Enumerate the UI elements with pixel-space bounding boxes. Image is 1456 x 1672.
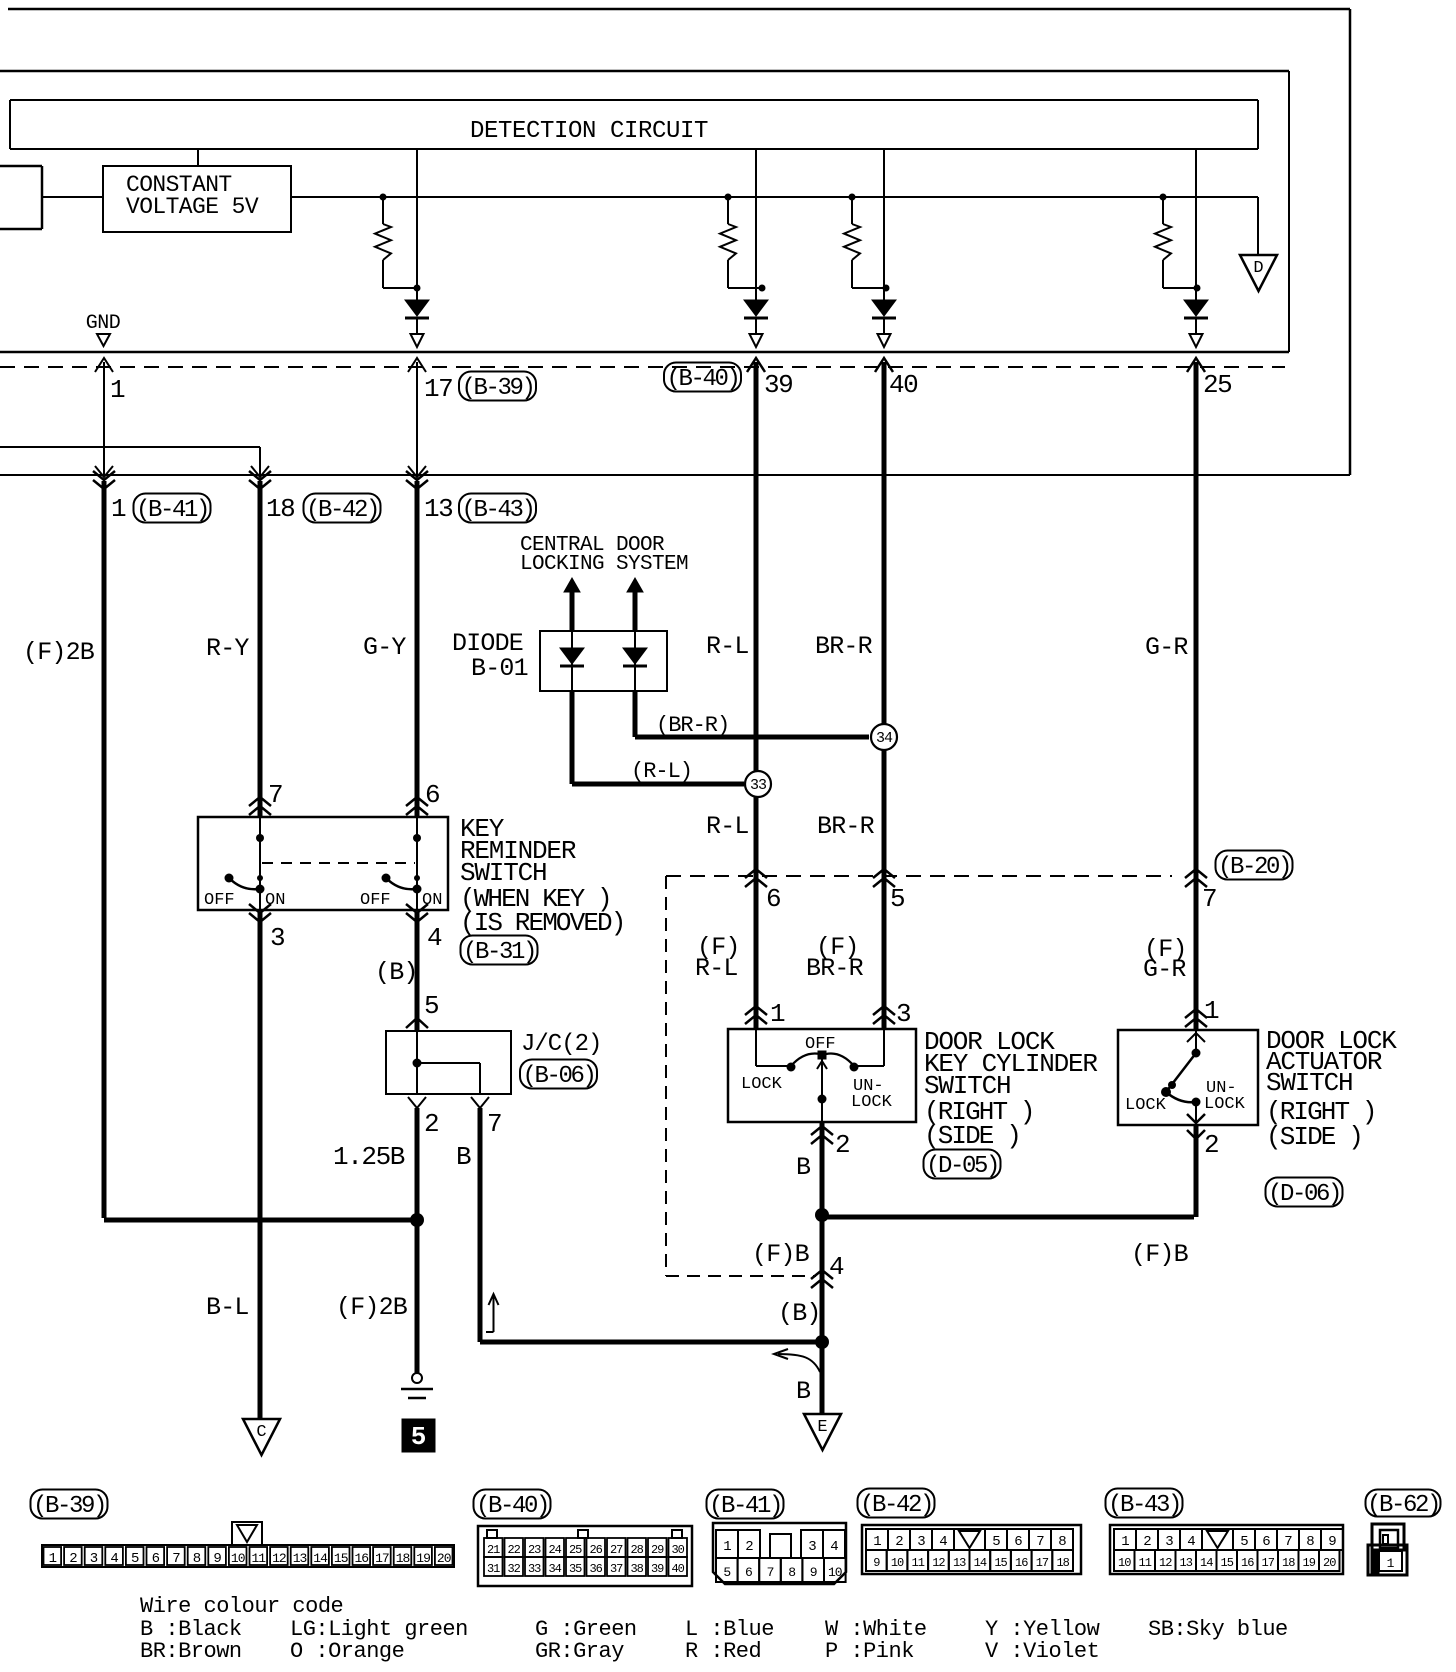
svg-text:33: 33 xyxy=(750,777,767,794)
svg-text:8: 8 xyxy=(788,1565,795,1580)
svg-text:10: 10 xyxy=(828,1565,842,1580)
svg-text:22: 22 xyxy=(507,1543,520,1557)
svg-text:(B-62): (B-62) xyxy=(1367,1492,1439,1519)
svg-text:17: 17 xyxy=(1262,1556,1275,1570)
svg-text:18: 18 xyxy=(396,1551,410,1566)
svg-text:1: 1 xyxy=(1204,996,1219,1026)
svg-text:2: 2 xyxy=(69,1551,77,1567)
svg-text:32: 32 xyxy=(507,1562,520,1576)
svg-text:2: 2 xyxy=(424,1109,438,1139)
svg-text:(F)B: (F)B xyxy=(752,1240,810,1269)
svg-text:E: E xyxy=(817,1418,827,1437)
svg-text:40: 40 xyxy=(889,370,917,400)
svg-text:18: 18 xyxy=(1056,1556,1069,1570)
svg-text:3: 3 xyxy=(896,999,910,1029)
svg-text:(B): (B) xyxy=(778,1299,821,1328)
svg-text:LOCK: LOCK xyxy=(741,1075,783,1094)
svg-text:9: 9 xyxy=(810,1565,817,1580)
svg-text:4: 4 xyxy=(427,923,442,953)
svg-text:1: 1 xyxy=(723,1539,731,1555)
svg-text:1: 1 xyxy=(111,494,126,524)
svg-text:34: 34 xyxy=(548,1562,561,1576)
svg-text:6: 6 xyxy=(745,1565,752,1580)
svg-text:12: 12 xyxy=(1159,1556,1172,1570)
svg-text:25: 25 xyxy=(1203,370,1231,400)
svg-text:J/C(2): J/C(2) xyxy=(521,1031,601,1058)
svg-text:5: 5 xyxy=(411,1422,427,1452)
svg-text:24: 24 xyxy=(548,1543,561,1557)
svg-text:31: 31 xyxy=(487,1562,500,1576)
svg-text:(B-06): (B-06) xyxy=(522,1063,594,1090)
svg-text:14: 14 xyxy=(1200,1556,1213,1570)
svg-text:34: 34 xyxy=(876,730,893,747)
svg-text:SWITCH: SWITCH xyxy=(1266,1068,1352,1098)
svg-text:6: 6 xyxy=(425,780,439,810)
svg-text:(F)2B: (F)2B xyxy=(23,638,95,667)
svg-text:2: 2 xyxy=(1204,1130,1218,1160)
svg-text:7: 7 xyxy=(172,1551,180,1567)
svg-text:3: 3 xyxy=(270,923,284,953)
svg-text:20: 20 xyxy=(1323,1556,1336,1570)
svg-text:6: 6 xyxy=(1014,1534,1022,1550)
svg-text:16: 16 xyxy=(1015,1556,1028,1570)
svg-text:18: 18 xyxy=(266,494,294,524)
svg-text:2: 2 xyxy=(895,1534,903,1550)
svg-text:9: 9 xyxy=(873,1556,880,1570)
svg-text:40: 40 xyxy=(671,1562,684,1576)
svg-text:G-Y: G-Y xyxy=(363,633,406,662)
svg-text:29: 29 xyxy=(651,1543,664,1557)
svg-text:5: 5 xyxy=(131,1551,139,1567)
svg-text:5: 5 xyxy=(890,884,904,914)
svg-text:5: 5 xyxy=(424,991,438,1021)
svg-text:37: 37 xyxy=(610,1562,623,1576)
svg-text:(B-41): (B-41) xyxy=(709,1493,781,1520)
svg-text:(BR-R): (BR-R) xyxy=(656,713,729,738)
svg-text:21: 21 xyxy=(487,1543,500,1557)
svg-text:BR:Brown: BR:Brown xyxy=(140,1639,242,1664)
svg-text:14: 14 xyxy=(974,1556,987,1570)
svg-text:BR-R: BR-R xyxy=(815,632,873,661)
svg-text:6: 6 xyxy=(766,884,780,914)
svg-text:B: B xyxy=(796,1377,811,1406)
svg-text:6: 6 xyxy=(1262,1534,1270,1550)
svg-text:(B-40): (B-40) xyxy=(476,1493,548,1520)
svg-text:10: 10 xyxy=(891,1556,904,1570)
svg-text:2: 2 xyxy=(835,1130,849,1160)
svg-text:R-L: R-L xyxy=(695,954,738,983)
svg-text:5: 5 xyxy=(1240,1534,1248,1550)
svg-text:8: 8 xyxy=(1058,1534,1066,1550)
svg-text:OFF: OFF xyxy=(360,891,391,910)
svg-text:10: 10 xyxy=(1118,1556,1131,1570)
svg-text:G-R: G-R xyxy=(1145,633,1188,662)
svg-text:(IS REMOVED): (IS REMOVED) xyxy=(460,908,624,938)
svg-text:39: 39 xyxy=(764,370,792,400)
svg-text:8: 8 xyxy=(1306,1534,1314,1550)
svg-text:4: 4 xyxy=(939,1534,947,1550)
svg-text:16: 16 xyxy=(1241,1556,1254,1570)
svg-text:G-R: G-R xyxy=(1143,955,1186,984)
svg-text:BR-R: BR-R xyxy=(817,812,875,841)
svg-text:7: 7 xyxy=(487,1109,501,1139)
svg-text:B: B xyxy=(796,1153,811,1182)
svg-text:(D-05): (D-05) xyxy=(926,1153,998,1180)
svg-text:(B-43): (B-43) xyxy=(1108,1492,1180,1519)
svg-text:17: 17 xyxy=(1036,1556,1049,1570)
svg-text:(F)B: (F)B xyxy=(1131,1240,1189,1269)
svg-text:ON: ON xyxy=(265,891,285,910)
svg-text:13: 13 xyxy=(424,494,452,524)
svg-text:5: 5 xyxy=(992,1534,1000,1550)
svg-text:28: 28 xyxy=(630,1543,643,1557)
svg-text:C: C xyxy=(256,1423,266,1442)
svg-text:30: 30 xyxy=(671,1543,684,1557)
svg-text:11: 11 xyxy=(251,1551,266,1566)
svg-text:26: 26 xyxy=(589,1543,602,1557)
svg-text:3: 3 xyxy=(1165,1534,1173,1550)
svg-text:13: 13 xyxy=(1180,1556,1193,1570)
svg-text:(B-42): (B-42) xyxy=(860,1492,932,1519)
svg-text:1: 1 xyxy=(873,1534,881,1550)
svg-text:20: 20 xyxy=(437,1551,451,1566)
svg-text:(B-39): (B-39) xyxy=(33,1493,105,1520)
svg-text:18: 18 xyxy=(1282,1556,1295,1570)
svg-text:B: B xyxy=(456,1142,471,1172)
svg-text:7: 7 xyxy=(1202,884,1216,914)
svg-text:39: 39 xyxy=(651,1562,664,1576)
svg-text:16: 16 xyxy=(354,1551,368,1566)
svg-text:7: 7 xyxy=(767,1565,774,1580)
svg-text:(B-20): (B-20) xyxy=(1218,854,1290,881)
svg-text:P :Pink: P :Pink xyxy=(825,1639,914,1664)
svg-text:DETECTION CIRCUIT: DETECTION CIRCUIT xyxy=(470,118,708,145)
svg-text:(B-42): (B-42) xyxy=(306,497,378,524)
svg-text:3: 3 xyxy=(90,1551,98,1567)
svg-text:17: 17 xyxy=(424,374,452,404)
svg-text:1: 1 xyxy=(110,375,125,405)
svg-text:19: 19 xyxy=(416,1551,430,1566)
svg-text:1: 1 xyxy=(770,999,785,1029)
svg-text:R-L: R-L xyxy=(706,812,749,841)
svg-text:LOCKING SYSTEM: LOCKING SYSTEM xyxy=(520,553,688,576)
svg-text:(B-39): (B-39) xyxy=(461,375,533,402)
svg-text:7: 7 xyxy=(1284,1534,1292,1550)
svg-text:9: 9 xyxy=(1328,1534,1336,1550)
svg-text:LOCK: LOCK xyxy=(851,1093,893,1112)
svg-text:1: 1 xyxy=(49,1551,57,1567)
svg-text:B-L: B-L xyxy=(206,1293,249,1322)
svg-text:LOCK: LOCK xyxy=(1204,1095,1246,1114)
svg-text:1.25B: 1.25B xyxy=(333,1142,405,1172)
svg-text:8: 8 xyxy=(193,1551,201,1567)
svg-text:12: 12 xyxy=(272,1551,286,1566)
svg-text:6: 6 xyxy=(152,1551,160,1567)
svg-text:38: 38 xyxy=(630,1562,643,1576)
svg-text:(SIDE ): (SIDE ) xyxy=(924,1121,1020,1151)
svg-text:R-L: R-L xyxy=(706,632,749,661)
svg-text:Wire colour code: Wire colour code xyxy=(140,1594,343,1619)
svg-text:ON: ON xyxy=(422,891,442,910)
svg-text:(B-40): (B-40) xyxy=(666,366,738,393)
svg-text:SB:Sky blue: SB:Sky blue xyxy=(1148,1617,1288,1642)
svg-text:5: 5 xyxy=(723,1565,730,1580)
svg-text:33: 33 xyxy=(528,1562,541,1576)
svg-text:4: 4 xyxy=(110,1551,118,1567)
svg-text:4: 4 xyxy=(1187,1534,1195,1550)
svg-text:(B-31): (B-31) xyxy=(463,939,535,966)
svg-text:(SIDE ): (SIDE ) xyxy=(1266,1122,1362,1152)
svg-text:13: 13 xyxy=(953,1556,966,1570)
svg-text:25: 25 xyxy=(569,1543,582,1557)
svg-text:35: 35 xyxy=(569,1562,582,1576)
svg-text:17: 17 xyxy=(375,1551,389,1566)
svg-text:7: 7 xyxy=(268,780,282,810)
svg-text:15: 15 xyxy=(1221,1556,1234,1570)
svg-text:1: 1 xyxy=(1387,1556,1395,1571)
svg-text:3: 3 xyxy=(917,1534,925,1550)
svg-text:2: 2 xyxy=(1143,1534,1151,1550)
svg-text:(R-L): (R-L) xyxy=(631,759,692,784)
svg-text:3: 3 xyxy=(808,1539,816,1555)
svg-text:1: 1 xyxy=(1121,1534,1129,1550)
svg-text:19: 19 xyxy=(1303,1556,1316,1570)
svg-text:BR-R: BR-R xyxy=(806,954,864,983)
svg-text:GR:Gray: GR:Gray xyxy=(535,1639,624,1664)
svg-text:R :Red: R :Red xyxy=(685,1639,761,1664)
svg-text:O :Orange: O :Orange xyxy=(290,1639,404,1664)
svg-text:7: 7 xyxy=(1036,1534,1044,1550)
svg-text:11: 11 xyxy=(1139,1556,1152,1570)
svg-text:(B-43): (B-43) xyxy=(461,497,533,524)
svg-text:VOLTAGE 5V: VOLTAGE 5V xyxy=(126,194,259,220)
svg-text:36: 36 xyxy=(589,1562,602,1576)
svg-text:10: 10 xyxy=(231,1551,245,1566)
svg-text:12: 12 xyxy=(932,1556,945,1570)
svg-text:(F)2B: (F)2B xyxy=(336,1293,408,1322)
svg-text:(D-06): (D-06) xyxy=(1268,1181,1340,1208)
svg-text:B-01: B-01 xyxy=(471,654,528,683)
svg-text:LOCK: LOCK xyxy=(1125,1096,1167,1115)
svg-text:GND: GND xyxy=(86,312,121,335)
svg-text:9: 9 xyxy=(213,1551,221,1567)
svg-text:13: 13 xyxy=(293,1551,307,1566)
svg-text:(B-41): (B-41) xyxy=(136,497,208,524)
svg-text:D: D xyxy=(1253,259,1263,278)
svg-text:15: 15 xyxy=(334,1551,348,1566)
svg-text:14: 14 xyxy=(313,1551,328,1566)
svg-text:27: 27 xyxy=(610,1543,623,1557)
svg-text:2: 2 xyxy=(745,1539,753,1555)
svg-text:OFF: OFF xyxy=(204,891,235,910)
svg-text:11: 11 xyxy=(912,1556,925,1570)
svg-text:4: 4 xyxy=(830,1539,838,1555)
svg-text:(B): (B) xyxy=(375,958,418,987)
svg-text:23: 23 xyxy=(528,1543,541,1557)
svg-text:V :Violet: V :Violet xyxy=(985,1639,1099,1664)
svg-text:R-Y: R-Y xyxy=(206,634,249,663)
svg-text:15: 15 xyxy=(994,1556,1007,1570)
